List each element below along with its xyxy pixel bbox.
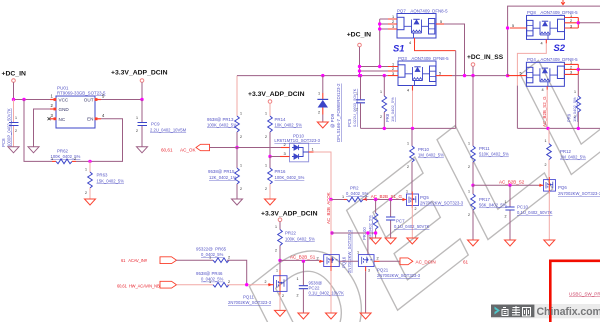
svg-text:1: 1 — [51, 157, 53, 161]
wire PR11 column — [472, 76, 474, 146]
wire PQ21 source to gnd — [365, 271, 367, 313]
wire PQ4 gate column (AC_B2B_S2_G) — [546, 90, 548, 129]
svg-text:PQ7 AON7409_DFN8-5: PQ7 AON7409_DFN8-5 — [397, 9, 448, 14]
svg-text:PR16: PR16 — [275, 169, 287, 174]
pin 4 gate stub — [414, 38, 416, 43]
resistor PR63 — [85, 161, 124, 199]
net flag AC_OK — [161, 144, 237, 152]
wire GND pin to ground — [34, 109, 51, 147]
mosfet PQ3 AON7409_DFN8-5 — [388, 56, 452, 92]
wire S1 gate bus y128.4 — [361, 127, 456, 129]
svg-text:2: 2 — [282, 294, 284, 298]
power flag +DC_IN_SS — [467, 54, 504, 76]
svg-text:1: 1 — [275, 225, 277, 229]
pin 5 drain stub — [436, 75, 452, 77]
IC PU01 RT9069-33GB_SOT23-5 — [48, 86, 107, 129]
resistor PR11 — [468, 142, 509, 186]
resistor PR17 — [468, 185, 507, 240]
svg-text:2: 2 — [85, 191, 87, 195]
pin 4 gate stub — [412, 86, 414, 91]
wire +DC_IN horizontal to PU01 VCC — [14, 99, 51, 101]
svg-text:2: 2 — [380, 115, 382, 119]
capacitor PC7 — [386, 198, 430, 238]
svg-text:PQ3 AON7409_DFN8-5: PQ3 AON7409_DFN8-5 — [398, 56, 449, 61]
capacitor PC9 — [136, 100, 187, 147]
svg-text:1: 1 — [265, 112, 267, 116]
svg-text:2: 2 — [74, 157, 76, 161]
svg-text:1: 1 — [505, 200, 507, 204]
wire PQ3 source rows — [360, 67, 389, 72]
ground under PR63 — [85, 199, 96, 205]
resistor PR12 — [545, 128, 587, 179]
wire PQ7 gate-tie column x379.7 — [380, 19, 388, 67]
transistor PQ16 2N7002KW — [317, 229, 352, 273]
red highlight box — [550, 261, 600, 322]
wire PQ8 gate to S2 gate bus — [517, 43, 546, 85]
ground under PC8 — [8, 147, 19, 153]
svg-text:2: 2 — [265, 187, 267, 191]
svg-text:1: 1 — [574, 90, 576, 94]
svg-text:3: 3 — [570, 24, 572, 28]
svg-text:RT9069-33GB_SOT23-5: RT9069-33GB_SOT23-5 — [57, 91, 106, 96]
svg-text:15K_0402_5%: 15K_0402_5% — [97, 179, 125, 184]
svg-text:USBC_SW_PR: USBC_SW_PR — [569, 292, 600, 297]
svg-text:9538@ PR46: 9538@ PR46 — [196, 271, 223, 276]
svg-text:4: 4 — [542, 88, 544, 92]
power flag +3.3V_ADP_DCIN — [111, 70, 168, 100]
svg-text:1M_0402_5%: 1M_0402_5% — [560, 155, 586, 160]
wire PQ16 to PQ21 — [339, 260, 358, 262]
resistor PR10 — [407, 128, 444, 194]
svg-text:1: 1 — [570, 61, 572, 65]
wire EN pin loop to divider — [90, 119, 123, 162]
svg-text:PR14: PR14 — [275, 117, 287, 122]
diode B — [292, 154, 299, 159]
svg-text:AC_B2B_S2_G: AC_B2B_S2_G — [542, 96, 547, 127]
svg-text:2N7002KW_SOT323-3: 2N7002KW_SOT323-3 — [420, 201, 464, 206]
svg-text:2: 2 — [265, 135, 267, 139]
pin 5 OUT stub — [95, 99, 101, 101]
node AC_OK junction — [235, 146, 238, 149]
svg-text:AC_B2B_S1: AC_B2B_S1 — [290, 255, 316, 260]
diode PD9 (to gnd) — [317, 74, 341, 142]
svg-text:PR9: PR9 — [567, 113, 572, 122]
junction S2 gate drive — [471, 184, 474, 187]
wire PQ6 source to gnd — [548, 191, 550, 240]
svg-text:2: 2 — [377, 257, 379, 261]
svg-text:PC10: PC10 — [517, 205, 529, 210]
svg-text:AC_B2B_ACOK: AC_B2B_ACOK — [326, 192, 331, 224]
svg-text:2: 2 — [275, 249, 277, 253]
svg-text:NC: NC — [59, 117, 66, 122]
wire PQ5 source to gnd — [411, 206, 413, 239]
svg-text:PR17: PR17 — [479, 197, 491, 202]
pin 1 out — [309, 151, 314, 153]
svg-text:PR10: PR10 — [418, 147, 430, 152]
resistor PR65 — [196, 247, 247, 285]
svg-text:AC_B2B_S2: AC_B2B_S2 — [499, 180, 525, 185]
pin5 stub left — [508, 75, 527, 77]
net label AC_B2B_S1_G — [364, 194, 402, 200]
transistor PQ11 2N7002KW — [228, 260, 287, 305]
svg-text:PR22: PR22 — [285, 231, 297, 236]
junction PR22/PQ11 — [278, 259, 281, 262]
svg-text:2: 2 — [570, 19, 572, 23]
pin 5 drain stub — [436, 23, 444, 25]
svg-text:2: 2 — [15, 129, 17, 133]
chinafix watermark logo text — [495, 306, 600, 318]
wire PQ11 source to gnd — [279, 295, 281, 311]
svg-text:2: 2 — [545, 163, 547, 167]
junction PR62/PR63 — [88, 160, 91, 163]
svg-text:5: 5 — [520, 71, 522, 75]
capacitor PC22 — [297, 260, 345, 313]
svg-text:S2: S2 — [554, 42, 566, 53]
svg-text:1: 1 — [406, 190, 408, 194]
svg-text:PQ16: PQ16 — [341, 256, 346, 268]
svg-text:1: 1 — [570, 14, 572, 18]
svg-text:1M_0402_5%: 1M_0402_5% — [390, 97, 395, 122]
ground under PC9 — [137, 147, 148, 153]
wire OUT to PC9 — [101, 99, 142, 101]
chinafix watermark logo background — [491, 304, 600, 318]
svg-text:+3.3V_ADP_DCIN: +3.3V_ADP_DCIN — [261, 211, 318, 218]
svg-text:2: 2 — [505, 215, 507, 219]
wire ACOK column continues down — [330, 200, 332, 255]
svg-text:2N7002KW_SOT323-3: 2N7002KW_SOT323-3 — [377, 273, 421, 278]
svg-text:1: 1 — [240, 164, 242, 168]
svg-text:0_0402_5%: 0_0402_5% — [201, 277, 224, 282]
resistor PR15 — [208, 148, 242, 200]
svg-text:61 ACAV_IN#: 61 ACAV_IN# — [121, 258, 148, 263]
svg-text:1: 1 — [15, 116, 17, 120]
ground under GND pin — [28, 147, 39, 153]
svg-text:1: 1 — [342, 195, 344, 199]
capacitor PC8 — [1, 100, 19, 148]
svg-text:4: 4 — [409, 41, 411, 45]
svg-text:PC7: PC7 — [396, 219, 405, 224]
pins 1,2,3 right stubs — [564, 64, 578, 74]
wire branch down to PR62 — [24, 100, 52, 162]
node junction at PC8 — [12, 98, 15, 101]
svg-text:2N7002KW_SOT323-3: 2N7002KW_SOT323-3 — [347, 229, 352, 273]
capacitor PC5 — [347, 74, 365, 128]
svg-text:60,61 HW_ACAVIN_NB: 60,61 HW_ACAVIN_NB — [117, 283, 160, 288]
wire +DC_IN row y75.6 — [237, 75, 388, 77]
svg-text:1: 1 — [357, 250, 359, 254]
wire PQ3 drain row to SS node — [452, 75, 510, 77]
svg-text:100K_0402_5%: 100K_0402_5% — [207, 123, 237, 128]
svg-text:56K_0402_5%: 56K_0402_5% — [479, 203, 507, 208]
svg-text:PQ6: PQ6 — [558, 185, 567, 190]
pin 4 gate stub — [545, 39, 547, 43]
svg-text:100K_0402_5%: 100K_0402_5% — [285, 236, 315, 241]
svg-text:0.1U_0402_10V7K: 0.1U_0402_10V7K — [309, 291, 345, 296]
svg-text:2: 2 — [392, 20, 394, 24]
svg-text:PR11: PR11 — [479, 146, 490, 151]
svg-text:2: 2 — [265, 280, 267, 284]
resistor PR62 — [51, 149, 91, 164]
pins 1,2,3 right stubs — [565, 18, 579, 29]
svg-text:2: 2 — [415, 207, 417, 211]
capacitor PC10 — [505, 184, 553, 240]
svg-text:5: 5 — [439, 71, 441, 75]
wire PQ8 drain column x507.6 with top rail — [508, 6, 600, 76]
wire S2 gate bus y128.4 — [517, 127, 600, 129]
svg-text:1: 1 — [85, 168, 87, 172]
svg-text:9538@ PR13: 9538@ PR13 — [207, 117, 234, 122]
wire PQ7 gate down-right — [415, 43, 456, 51]
svg-text:PC8: PC8 — [1, 138, 6, 147]
node junction at x24 — [22, 98, 25, 101]
svg-text:100K_0402_5%: 100K_0402_5% — [275, 175, 305, 180]
mosfet PQ7 AON7409_DFN8-5 — [388, 9, 448, 45]
svg-text:510K_0402_5%: 510K_0402_5% — [479, 152, 509, 157]
svg-text:61: 61 — [463, 260, 469, 265]
resistor PR16 — [265, 157, 305, 200]
junction PR46/PR65 — [245, 283, 248, 286]
pin5 stub left — [510, 27, 527, 29]
svg-text:PQ21: PQ21 — [377, 268, 389, 273]
svg-text:1: 1 — [468, 142, 470, 146]
svg-text:1: 1 — [318, 92, 320, 96]
svg-text:1M_0402_5%: 1M_0402_5% — [418, 153, 444, 158]
svg-text:+3.3V_ADP_DCIN: +3.3V_ADP_DCIN — [111, 70, 168, 77]
svg-text:12K_0402_1%: 12K_0402_1% — [209, 175, 237, 180]
svg-text:PR2: PR2 — [350, 186, 359, 191]
svg-text:2: 2 — [297, 294, 299, 298]
svg-text:1: 1 — [545, 139, 547, 143]
resistor PR2 — [329, 186, 402, 202]
svg-text:2: 2 — [136, 129, 138, 133]
svg-text:PQ11: PQ11 — [243, 295, 254, 300]
svg-text:4: 4 — [541, 42, 543, 46]
svg-text:Chinafix.com: Chinafix.com — [537, 306, 600, 318]
svg-text:2: 2 — [392, 67, 394, 71]
pin 4 gate stub — [546, 86, 548, 90]
resistor PR13 — [207, 112, 242, 148]
svg-text:1: 1 — [265, 164, 267, 168]
svg-text:0_0402_5%: 0_0402_5% — [201, 252, 224, 257]
svg-text:1M_0402_5%: 1M_0402_5% — [572, 97, 577, 122]
svg-text:1: 1 — [380, 90, 382, 94]
pin stubs PQ3 — [388, 67, 398, 76]
diode A — [292, 145, 299, 150]
transistor PQ6 2N7002KW — [539, 177, 600, 196]
svg-text:2: 2 — [407, 165, 409, 169]
svg-text:1: 1 — [392, 63, 394, 67]
junction dots SS row — [463, 74, 466, 77]
wire to PQ16 gate — [280, 259, 319, 261]
svg-text:3: 3 — [368, 269, 370, 273]
dual diode PD10 LR671MT1G — [270, 133, 321, 162]
power flag +3.3V_ADP_DCIN (second) — [248, 91, 305, 116]
svg-text:2: 2 — [570, 66, 572, 70]
wire PQ8 source out right — [577, 21, 580, 24]
svg-text:OUT: OUT — [84, 98, 94, 103]
svg-text:2: 2 — [240, 135, 242, 139]
net flag ACAV_IN# — [121, 257, 213, 264]
power flag +DC_IN (left) — [2, 71, 26, 100]
svg-text:2N7002KW_SOT323-3: 2N7002KW_SOT323-3 — [558, 191, 600, 196]
pin stubs PQ7 — [388, 19, 397, 29]
junction dots S1 columns — [358, 65, 361, 68]
pin 4 EN stub — [95, 118, 101, 120]
svg-text:PR12: PR12 — [560, 149, 572, 154]
svg-text:+3.3V_ADP_DCIN: +3.3V_ADP_DCIN — [248, 91, 305, 98]
power flag +DC_IN (S1) — [347, 32, 371, 76]
mosfet PQ4 AON7409_DFN8-5 (mirrored) — [508, 57, 579, 92]
svg-text:0.1U_0402_50V7K: 0.1U_0402_50V7K — [517, 210, 553, 215]
svg-text:S1: S1 — [393, 43, 404, 54]
svg-text:0.022U_0603_50V7K: 0.022U_0603_50V7K — [352, 88, 357, 127]
svg-text:2: 2 — [468, 165, 470, 169]
power flag +3.3V_ADP_DCIN (third) — [261, 211, 318, 230]
svg-text:1: 1 — [392, 15, 394, 19]
transistor PQ5 2N7002KW — [402, 190, 464, 212]
node PD10 pin3 junction — [268, 155, 271, 158]
svg-text:2: 2 — [318, 111, 320, 115]
off-page tick — [561, 0, 565, 5]
wire to PQ6 gate — [473, 184, 539, 186]
svg-text:2: 2 — [228, 256, 230, 260]
svg-text:PC9: PC9 — [151, 122, 160, 127]
svg-text:0.1U_0402_50V7K: 0.1U_0402_50V7K — [394, 224, 430, 229]
svg-text:+DC_IN: +DC_IN — [347, 32, 371, 39]
pin 1 VCC stub — [50, 99, 56, 101]
svg-text:1: 1 — [297, 277, 299, 281]
svg-text:AC_DCIN: AC_DCIN — [416, 260, 436, 265]
svg-text:PR63: PR63 — [97, 173, 109, 178]
wire PQ7 drain to +DC_IN_SS node — [444, 24, 465, 76]
svg-text:1: 1 — [407, 142, 409, 146]
transistor PQ21 2N7002KW — [357, 231, 421, 278]
wire PQ16 source to gnd — [330, 271, 332, 313]
svg-text:EN: EN — [87, 117, 93, 122]
svg-text:VCC: VCC — [59, 98, 69, 103]
svg-text:3: 3 — [570, 71, 572, 75]
svg-text:9538@ PR15: 9538@ PR15 — [208, 169, 235, 174]
svg-text:2: 2 — [317, 257, 319, 261]
svg-text:1: 1 — [136, 116, 138, 120]
svg-text:1000P_0402_50V7K: 1000P_0402_50V7K — [7, 108, 12, 147]
resistor PR22 — [275, 225, 315, 260]
ground under PR16 — [265, 199, 276, 205]
svg-text:95322@ PR65: 95322@ PR65 — [196, 247, 227, 252]
wire +DC_IN branch down x236.5 — [236, 76, 238, 116]
resistor PR14 — [265, 112, 302, 157]
svg-text:DFLS166-7_POWERDI123-2: DFLS166-7_POWERDI123-2 — [336, 83, 341, 142]
svg-text:1: 1 — [240, 112, 242, 116]
ground under PR15 — [232, 199, 243, 205]
svg-text:+DC_IN: +DC_IN — [2, 71, 26, 78]
pin 3 NC stub — [50, 118, 56, 120]
svg-text:1: 1 — [209, 280, 211, 284]
svg-text:2N7002KW_SOT323-3: 2N7002KW_SOT323-3 — [228, 300, 272, 305]
wire PQ3 gate column — [412, 91, 414, 129]
svg-text:+DC_IN_SS: +DC_IN_SS — [467, 54, 504, 61]
wire AC_OK to PD10 pin2 — [237, 147, 281, 149]
svg-text:1: 1 — [209, 256, 211, 260]
svg-text:4: 4 — [407, 89, 409, 93]
svg-text:1: 1 — [276, 269, 278, 273]
svg-text:AC_OK: AC_OK — [180, 148, 197, 153]
svg-text:1: 1 — [468, 190, 470, 194]
pin 2 GND stub — [50, 108, 56, 110]
svg-text:PR62: PR62 — [57, 149, 69, 154]
svg-text:2: 2 — [240, 187, 242, 191]
svg-text:@ PD9: @ PD9 — [330, 113, 335, 128]
svg-text:PQ5: PQ5 — [420, 195, 429, 200]
svg-text:2: 2 — [468, 213, 470, 217]
svg-text:3: 3 — [392, 25, 394, 29]
svg-text:2.2U_0402_10V5M: 2.2U_0402_10V5M — [150, 128, 187, 133]
resistor PR46 — [196, 271, 268, 287]
svg-text:GND: GND — [59, 107, 70, 112]
svg-text:2: 2 — [228, 280, 230, 284]
svg-text:5: 5 — [440, 20, 442, 24]
wire PD10 out to AC_B2B column — [314, 152, 331, 200]
wire PQ4 source out right — [577, 68, 580, 71]
svg-text:10K_0402_5%: 10K_0402_5% — [275, 123, 303, 128]
resistor PR9 — [567, 74, 581, 128]
mosfet PQ8 AON7409_DFN8-5 (mirrored) — [510, 10, 578, 45]
resistor PR100 — [362, 198, 378, 240]
svg-text:LR671MT1G_SOT323-3: LR671MT1G_SOT323-3 — [274, 138, 320, 143]
wire ACOK branch to PR100 bottom — [330, 231, 333, 234]
ground under PD9 — [317, 122, 328, 128]
net flag HW_ACAVIN_NB — [117, 281, 213, 288]
svg-text:60,61: 60,61 — [161, 148, 173, 153]
svg-text:3: 3 — [392, 72, 394, 76]
net flag AC_DCIN — [380, 258, 469, 265]
svg-text:5: 5 — [512, 24, 514, 28]
resistor PR8 — [380, 74, 395, 128]
